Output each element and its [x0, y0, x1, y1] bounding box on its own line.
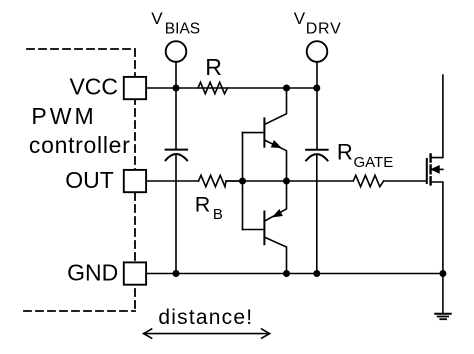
junction VBIAS/VCC node: [173, 85, 180, 92]
ground symbol: [435, 274, 451, 320]
junction C1 ground node: [173, 270, 180, 277]
wire VDRV column lower: [316, 155, 318, 274]
source lead: [431, 182, 443, 274]
wire OUT rail mid: [226, 180, 353, 182]
svg-text:GND: GND: [67, 260, 118, 286]
wire VDRV stem: [316, 62, 318, 88]
svg-text:controller: controller: [29, 132, 131, 158]
drain lead: [431, 75, 443, 158]
distance arrow: [144, 329, 270, 338]
capacitor C1: [166, 149, 188, 151]
transistor Q2 pnp: [243, 181, 287, 274]
junction Q2 collector ground node: [283, 270, 290, 277]
svg-text:PWM: PWM: [31, 103, 96, 129]
resistor R: [198, 82, 228, 93]
wire OUT rail left: [146, 180, 199, 182]
svg-text:DRV: DRV: [306, 20, 342, 37]
gate bar: [426, 159, 428, 183]
capacitor C2: [306, 149, 328, 151]
svg-text:B: B: [213, 206, 223, 223]
wire base column: [242, 133, 244, 230]
wire VBIAS stem: [175, 62, 177, 88]
pin GND: [124, 262, 146, 284]
wire VDRV column upper: [316, 88, 318, 149]
wire VBIAS column lower: [175, 155, 177, 274]
junction Q1 collector node: [283, 85, 290, 92]
svg-text:distance!: distance!: [158, 306, 253, 329]
resistor RGATE: [353, 175, 383, 186]
channel segments: [429, 154, 431, 161]
supply VBIAS circle: [166, 41, 187, 62]
svg-text:OUT: OUT: [65, 167, 114, 193]
svg-text:VCC: VCC: [69, 74, 118, 100]
junction base node: [239, 178, 246, 185]
labels: [29, 74, 131, 286]
wire GND rail: [146, 273, 443, 275]
svg-text:BIAS: BIAS: [165, 20, 200, 37]
svg-text:R: R: [337, 140, 353, 165]
junction C2 ground node: [313, 270, 320, 277]
wire VCC rail: [146, 87, 317, 89]
svg-text:V: V: [151, 9, 163, 28]
PWM controller dashed box: [24, 49, 135, 311]
svg-text:R: R: [195, 192, 211, 216]
junction VDRV node: [313, 85, 320, 92]
svg-text:V: V: [294, 9, 306, 28]
wire OUT rail right: [384, 180, 427, 182]
svg-text:R: R: [205, 54, 222, 80]
wire VBIAS column upper: [175, 88, 177, 149]
pin VCC: [124, 77, 146, 99]
junction MOSFET source ground node: [439, 270, 446, 277]
mosfet Q3: [427, 75, 443, 274]
pin OUT: [124, 170, 146, 192]
body lead with arrow: [438, 168, 443, 170]
resistor RB: [199, 175, 243, 186]
transistor Q1 npn: [243, 88, 287, 181]
svg-text:GATE: GATE: [354, 154, 394, 171]
supply VDRV circle: [307, 41, 328, 62]
junction emitter output node: [283, 178, 290, 185]
